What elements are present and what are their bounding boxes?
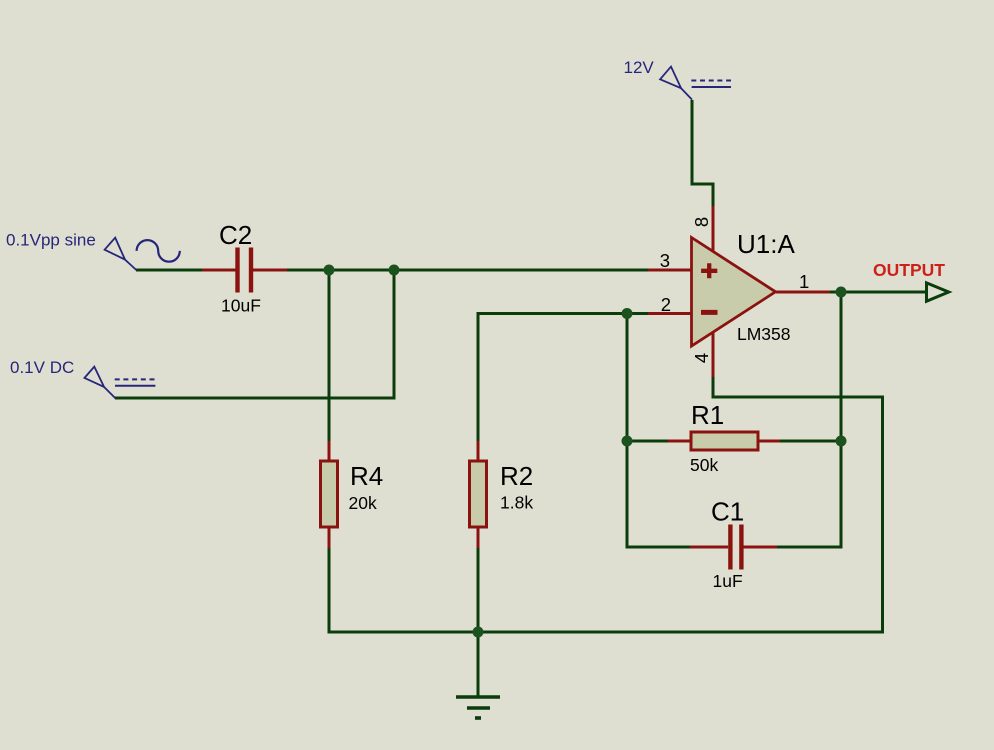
wire: R2 bottom down to ground symbol bbox=[477, 548, 480, 697]
svg-text:1: 1 bbox=[799, 271, 809, 292]
svg-text:20k: 20k bbox=[349, 493, 377, 513]
capacitor C1 bbox=[690, 525, 777, 570]
svg-text:3: 3 bbox=[660, 250, 670, 271]
wire: node to R1 left lead bbox=[627, 440, 668, 443]
DC symbol for 0.1V DC bbox=[115, 379, 156, 385]
op-amp U1:A body bbox=[692, 238, 776, 347]
svg-text:R4: R4 bbox=[350, 461, 383, 491]
junction node: inverting input bbox=[622, 308, 633, 319]
wire: C2 right lead to op-amp pin 3 bbox=[287, 269, 648, 272]
wire: op-amp output to OUTPUT terminal bbox=[830, 291, 927, 294]
op-amp U1 pin 4 lead bbox=[712, 332, 715, 377]
svg-text:12V: 12V bbox=[624, 58, 655, 77]
svg-text:2: 2 bbox=[661, 294, 671, 315]
svg-text:0.1Vpp sine: 0.1Vpp sine bbox=[6, 231, 96, 250]
op-amp U1 pin 2 lead bbox=[648, 312, 691, 315]
wire: 12V supply down to op-amp pin 8 bbox=[692, 100, 713, 206]
terminal: OUTPUT arrow bbox=[927, 283, 949, 301]
DC symbol for 12V bbox=[691, 81, 731, 88]
capacitor C2 bbox=[202, 248, 287, 293]
op-amp minus symbol bbox=[701, 310, 718, 315]
terminal: 0.1Vpp sine generator bbox=[105, 238, 137, 270]
svg-text:R2: R2 bbox=[500, 461, 533, 491]
junction node: R1 right / C1 right bbox=[836, 436, 847, 447]
wire: 0.1V DC input rising to main input net bbox=[115, 270, 394, 398]
svg-text:1uF: 1uF bbox=[713, 571, 743, 591]
svg-text:R1: R1 bbox=[691, 400, 724, 430]
svg-text:0.1V DC: 0.1V DC bbox=[10, 358, 74, 377]
wire: R4 bottom to ground rail bbox=[328, 548, 331, 634]
op-amp U1 pin 3 lead bbox=[648, 269, 691, 272]
junction node: main net at DC branch bbox=[389, 265, 400, 276]
wire: sine input to C2 left lead bbox=[136, 269, 202, 272]
junction node: main net at R4 bbox=[324, 265, 335, 276]
op-amp U1 pin 8 lead bbox=[712, 206, 715, 252]
svg-text:C1: C1 bbox=[711, 497, 744, 527]
svg-text:1.8k: 1.8k bbox=[500, 493, 533, 513]
op-amp U1 pin 1 output lead bbox=[776, 291, 830, 294]
terminal: 0.1V DC source bbox=[85, 367, 116, 399]
junction node: ground rail bbox=[473, 627, 484, 638]
svg-text:LM358: LM358 bbox=[737, 324, 791, 344]
wire: bottom ground rail bbox=[328, 631, 885, 634]
terminal: 12V supply bbox=[660, 67, 692, 100]
wire: R2 top up and right to op-amp pin 2 bbox=[478, 314, 648, 442]
svg-text:4: 4 bbox=[691, 353, 712, 363]
sine waveform symbol bbox=[137, 240, 180, 262]
wire: op-amp pin 4 over and down to ground rail bbox=[713, 377, 883, 632]
svg-text:C2: C2 bbox=[219, 220, 252, 250]
svg-text:U1:A: U1:A bbox=[737, 229, 795, 259]
resistor R2 bbox=[470, 441, 487, 548]
junction node: output bbox=[836, 287, 847, 298]
svg-text:OUTPUT: OUTPUT bbox=[873, 260, 945, 280]
junction node: R1 left / C1 left bbox=[622, 436, 633, 447]
wire: main net down to R4 top bbox=[328, 270, 331, 441]
ground bbox=[456, 697, 500, 718]
wire: inverting node down to C1 left bbox=[627, 314, 690, 548]
wire: C1 right up to output node bbox=[777, 292, 841, 547]
wire: R1 right lead to output feedback column bbox=[780, 440, 841, 443]
svg-text:8: 8 bbox=[691, 217, 712, 227]
op-amp plus symbol bbox=[701, 263, 717, 278]
resistor R1 bbox=[668, 432, 780, 450]
svg-text:50k: 50k bbox=[690, 455, 718, 475]
resistor R4 bbox=[321, 441, 338, 548]
svg-text:10uF: 10uF bbox=[221, 296, 261, 316]
